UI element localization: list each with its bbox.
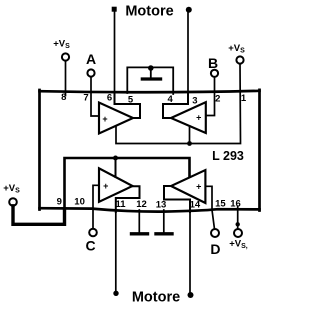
svg-text:6: 6 — [107, 93, 112, 104]
svg-text:12: 12 — [136, 199, 147, 210]
svg-text:3: 3 — [192, 96, 197, 107]
svg-text:+: + — [196, 113, 201, 123]
svg-text:B: B — [208, 55, 218, 71]
svg-text:8: 8 — [61, 92, 66, 103]
svg-text:2: 2 — [215, 94, 220, 105]
svg-text:11: 11 — [115, 199, 126, 210]
svg-text:+: + — [102, 114, 107, 124]
svg-text:L 293: L 293 — [212, 149, 244, 163]
svg-text:5: 5 — [128, 95, 134, 106]
svg-text:13: 13 — [156, 200, 167, 211]
svg-text:1: 1 — [241, 93, 247, 104]
svg-text:A: A — [86, 51, 96, 67]
svg-text:+: + — [196, 182, 201, 192]
svg-text:16: 16 — [230, 199, 241, 210]
svg-text:D: D — [210, 241, 220, 257]
svg-text:9: 9 — [57, 197, 62, 208]
svg-text:4: 4 — [168, 94, 174, 105]
svg-text:10: 10 — [74, 197, 85, 208]
svg-text:Motore: Motore — [132, 290, 180, 306]
svg-text:C: C — [85, 238, 95, 254]
svg-text:15: 15 — [215, 199, 226, 210]
svg-text:7: 7 — [83, 93, 88, 104]
svg-text:14: 14 — [190, 200, 201, 211]
svg-text:Motore: Motore — [125, 4, 173, 20]
svg-text:+: + — [103, 181, 108, 191]
